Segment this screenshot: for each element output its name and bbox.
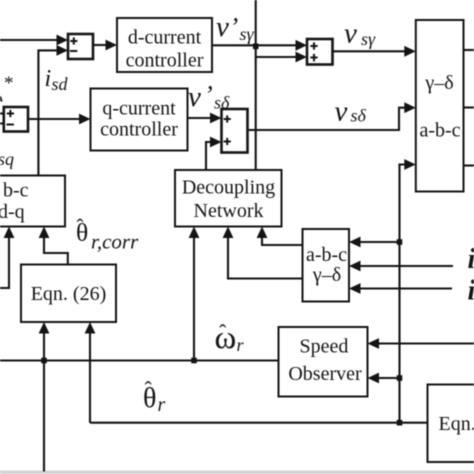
arrowhead v_sg into gamma-delta block — [404, 46, 416, 57]
arrowhead theta_r into Eqn 26 — [85, 322, 96, 334]
block b-c / d-q — [0, 176, 65, 227]
arrowhead current into Decoupling Network 2 — [257, 227, 268, 239]
arrowhead into summer S1 input 2 — [57, 45, 69, 56]
wire theta_r horizontal line — [90, 422, 428, 424]
arrowhead into summer S3 input 1 — [210, 113, 222, 124]
svg-text:i: i — [468, 244, 474, 275]
wire v_sd from S3 to gamma-delta block — [248, 108, 408, 130]
arrowhead into summer S1 input 1 — [57, 35, 69, 46]
summer S3 plus sign 1 — [224, 115, 231, 122]
block d-current controller — [117, 18, 212, 72]
svg-text:sγ: sγ — [240, 24, 255, 44]
wire current input to b-c/d-q block — [0, 236, 9, 288]
svg-text:v: v — [335, 95, 348, 127]
wire theta_r_corr from Eqn26 to b-c/d-q block — [44, 236, 68, 265]
summer S1 d-axis — [68, 34, 93, 59]
svg-text:sδ: sδ — [214, 93, 230, 113]
svg-text:b-c: b-c — [3, 180, 29, 202]
arrowhead into d-current controller — [106, 40, 118, 51]
wire v_sg from S4 to gamma-delta block — [333, 50, 408, 52]
wire theta_r distribution vertical — [400, 165, 408, 423]
arrowhead into summer S4 input 1 — [296, 40, 308, 51]
summer S4 plus sign 2 — [310, 54, 317, 62]
svg-text:sd: sd — [52, 74, 69, 94]
block Speed Observer — [279, 327, 368, 397]
svg-text:Speed: Speed — [300, 336, 349, 358]
summing signs — [7, 37, 318, 145]
svg-text:*: * — [4, 73, 14, 94]
wire current i input 2 to a-b-c block — [358, 265, 453, 267]
wire gamma-delta block output stub 1 — [464, 49, 474, 51]
wire speed observer input 2 — [377, 377, 400, 379]
arrowhead into summer S3 input 2 — [210, 137, 222, 148]
arrowhead into q-current controller — [79, 114, 91, 125]
wire theta_r up into Eqn 26 — [89, 331, 91, 423]
arrowhead current into Decoupling Network — [223, 227, 234, 239]
arrowhead into Speed Observer input 2 — [368, 373, 380, 384]
block a-b-c to gamma-delta — [303, 229, 350, 302]
wire vertical x=44 from Eqn26 down to bottom edge — [43, 331, 45, 472]
gray bottom band — [0, 471, 474, 474]
svg-text:ˆ: ˆ — [145, 377, 153, 402]
svg-text:’: ’ — [230, 13, 239, 42]
summer S4 plus sign 1 — [310, 42, 317, 49]
wire omega_r up into decoupling network — [193, 236, 195, 361]
svg-text:sq: sq — [0, 149, 14, 169]
wire theta_r to a-b-c block input 1 — [358, 241, 400, 243]
arrowhead omega_r into Decoupling Network — [189, 227, 200, 239]
svg-text:r: r — [237, 335, 245, 355]
node omega dot at x=194 — [191, 358, 197, 364]
node theta dot at y=422.7 — [397, 420, 403, 426]
wire i_sd feedback: vertical from b-c/d-q block up and into S1 — [38, 50, 58, 175]
block Eqn. (26) — [21, 265, 116, 323]
svg-text:d-current: d-current — [128, 27, 202, 49]
svg-text:r: r — [158, 394, 166, 416]
svg-text:i: i — [45, 66, 52, 92]
summing junctions — [4, 34, 333, 153]
svg-text:v: v — [216, 11, 229, 43]
arrowhead omega_r into Eqn 26 — [39, 322, 50, 334]
summer S1 minus sign — [70, 50, 77, 52]
svg-text:a-b-c: a-b-c — [419, 120, 460, 142]
svg-text:sδ: sδ — [351, 106, 367, 126]
node theta dot at y=242 — [397, 239, 403, 245]
wire a-b-c block output 1 to decoupling network — [262, 236, 303, 245]
block Decoupling Network — [175, 170, 282, 227]
wire a-b-c block output 2 to decoupling network — [228, 236, 303, 279]
svg-text:γ–δ: γ–δ — [312, 264, 341, 286]
summer S1 plus sign — [70, 37, 77, 44]
block q-current controller — [91, 89, 188, 151]
summer S2 minus sign — [7, 124, 14, 126]
wire gamma-delta block output stub 3 — [464, 164, 474, 166]
wire i_sq* summer S2 inputs — [0, 112, 4, 114]
svg-text:sγ: sγ — [361, 29, 376, 49]
wire decoupling network top output to S3 second input — [206, 142, 213, 170]
block Eqn. bottom right — [428, 385, 474, 463]
summer S2 q-axis — [4, 107, 28, 132]
svg-text:Eqn. (26): Eqn. (26) — [31, 283, 107, 305]
svg-text:controller: controller — [126, 50, 204, 72]
svg-text:d-q: d-q — [0, 201, 25, 223]
svg-text:Observer: Observer — [288, 363, 362, 385]
arrowhead current i into a-b-c block — [349, 261, 361, 272]
wire i_sd* reference input to summer S1 — [0, 39, 58, 41]
svg-text:i: i — [468, 276, 474, 307]
svg-text:γ–δ: γ–δ — [424, 72, 453, 94]
node omega dot at x=44 — [41, 358, 47, 364]
wire vertical decoupling line x=255.7 from top edge to Decoupling Network — [255, 0, 257, 170]
arrowhead into Speed Observer input 1 — [368, 338, 380, 349]
node v'_sg junction dot — [253, 44, 259, 50]
block gamma-delta to a-b-c — [416, 20, 464, 192]
wire gamma-delta block output stub 2 — [464, 106, 474, 108]
arrowhead theta_r into a-b-c block — [349, 237, 361, 248]
arrowhead theta_corr into b-c/d-q block — [39, 227, 50, 239]
svg-text:controller: controller — [100, 119, 178, 141]
arrowhead current into b-c/d-q block — [4, 227, 15, 239]
wire q-current controller output v'_sd to summer S3 — [188, 117, 214, 119]
svg-text:’: ’ — [204, 81, 213, 110]
arrowhead theta_r into gamma-delta block — [404, 159, 416, 170]
summer S2 plus sign — [7, 110, 14, 117]
svg-text:Decoupling: Decoupling — [182, 177, 275, 199]
wire omega_r line from speed observer to left edge — [0, 359, 279, 361]
svg-text:a-b-c: a-b-c — [306, 244, 347, 266]
svg-text:ˆ: ˆ — [77, 215, 84, 239]
arrowhead into summer S4 input 2 — [296, 52, 308, 63]
box texts — [31, 27, 461, 386]
svg-text:ˆ: ˆ — [219, 320, 227, 345]
wire current i input 3 to a-b-c block — [358, 287, 452, 289]
wire S1 output to d-current controller — [93, 44, 108, 46]
arrowhead v_sd into gamma-delta block — [404, 102, 416, 113]
summer S3 plus sign 2 — [224, 138, 231, 145]
wire branch to S4 second input — [256, 56, 298, 58]
arrowhead current i into a-b-c block 2 — [349, 283, 361, 294]
svg-text:q-current: q-current — [102, 98, 176, 120]
node theta dot at y=378 — [397, 375, 403, 381]
summer S3 v_sd — [222, 109, 248, 153]
svg-text:v: v — [344, 18, 357, 50]
wire S2 output to q-current controller — [28, 118, 82, 120]
svg-text:r,corr: r,corr — [91, 230, 139, 254]
summer S4 v_sg — [307, 39, 333, 65]
wire d-current controller output v'_sg to summer S4 — [212, 44, 298, 46]
svg-text:Eqn. (27): Eqn. (27) — [439, 413, 474, 435]
svg-text:v: v — [188, 81, 201, 113]
svg-text:Network: Network — [194, 200, 264, 222]
arrowheads — [4, 35, 416, 384]
label i_sq remnant — [0, 97, 1, 102]
wire speed observer input 1 from right edge — [377, 342, 474, 344]
